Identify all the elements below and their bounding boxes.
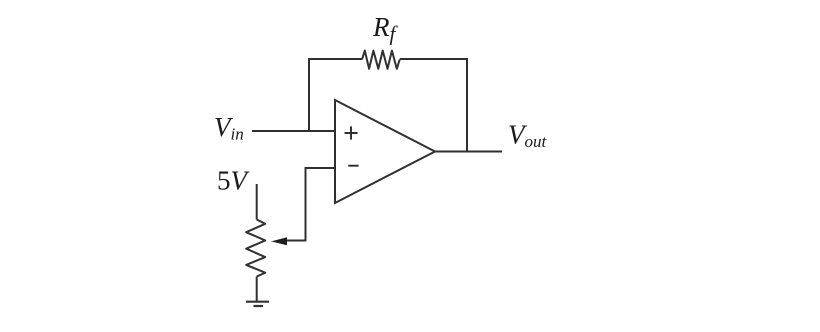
wire feedback right vertical — [466, 58, 468, 151]
potentiometer R1 zigzag — [246, 220, 265, 277]
svg-text:Vin: Vin — [214, 112, 244, 144]
wire output — [435, 151, 502, 153]
svg-text:Rf: Rf — [372, 12, 399, 46]
potentiometer bottom wire to ground — [256, 277, 258, 301]
wiper arrowhead — [271, 237, 287, 245]
svg-text:5V: 5V — [217, 165, 251, 195]
svg-text:Vout: Vout — [508, 119, 548, 151]
potentiometer top wire from 5V — [256, 184, 258, 220]
wire feedback top right segment — [400, 58, 468, 60]
op-amp - terminal mark — [348, 165, 358, 167]
ground — [246, 302, 269, 306]
wire feedback top left segment — [308, 58, 362, 60]
op-amp + terminal mark — [345, 126, 358, 139]
op-amp U1 — [335, 100, 435, 203]
wire feedback left vertical (node A to top wire) — [308, 59, 310, 132]
wire Vin input to + terminal — [252, 130, 335, 132]
resistor R_f — [362, 51, 400, 69]
wire - input to wiper — [287, 168, 335, 241]
